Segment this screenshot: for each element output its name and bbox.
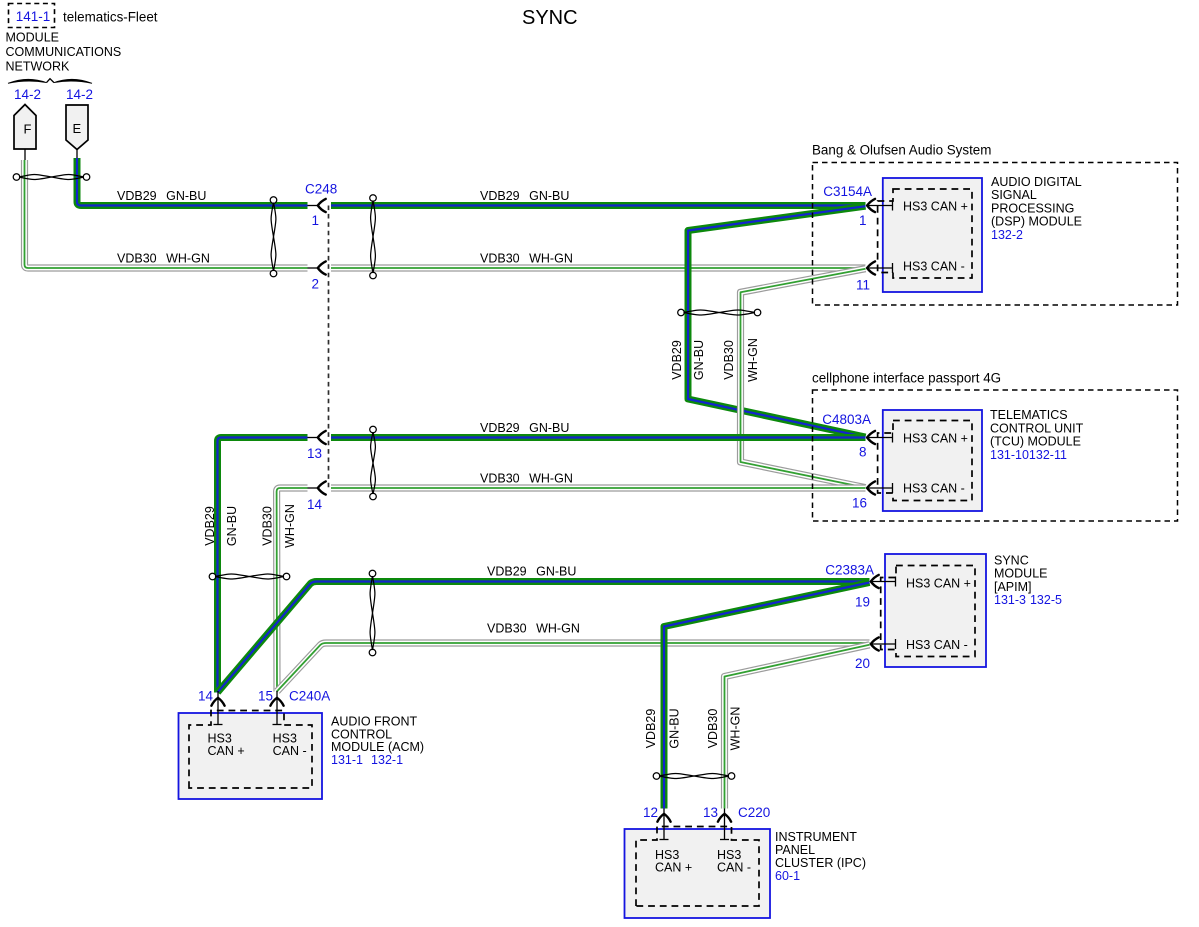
twisted pair symbol on runs 1-2 right of C248 <box>370 195 377 279</box>
svg-text:CAN +: CAN + <box>208 744 245 758</box>
svg-text:VDB29: VDB29 <box>203 506 217 546</box>
module box DSP U1 <box>883 178 982 292</box>
svg-text:F: F <box>24 122 32 137</box>
svg-text:8: 8 <box>859 445 867 460</box>
connector E <box>66 105 88 160</box>
label AUDIO FRONT CONTROL MODULE (ACM) <box>331 715 424 767</box>
svg-text:VDB29GN-BU: VDB29GN-BU <box>117 189 206 203</box>
pin stub ACM pin 14 <box>211 691 224 725</box>
label AUDIO DIGITAL SIGNAL PROCESSING (DSP) MODULE <box>991 175 1082 242</box>
svg-text:COMMUNICATIONS: COMMUNICATIONS <box>6 45 122 59</box>
svg-text:SYNC: SYNC <box>994 554 1029 568</box>
label HS3 CAN - (ACM) <box>273 732 307 759</box>
svg-text:PROCESSING: PROCESSING <box>991 201 1074 215</box>
connector boundary dashed DSP <box>878 189 972 278</box>
twisted pair symbol on verticals to ACM <box>209 573 290 580</box>
svg-text:WH-GN: WH-GN <box>729 707 743 751</box>
svg-text:C3154A: C3154A <box>823 184 872 199</box>
svg-text:VDB29GN-BU: VDB29GN-BU <box>480 189 569 203</box>
junction arrow pin 13 at C248 <box>308 431 326 444</box>
twisted pair symbol on runs 13-14 right of C248 <box>370 426 377 500</box>
pin stub DSP pin 1 <box>867 199 893 212</box>
svg-text:12: 12 <box>643 805 658 820</box>
svg-text:GN-BU: GN-BU <box>225 506 239 546</box>
wire VDB30 WH-GN: C248 junction 2 to DSP pin 11 <box>331 264 866 271</box>
svg-text:11: 11 <box>856 278 870 293</box>
twisted pair symbol on runs to SYNC <box>369 570 376 656</box>
svg-text:VDB29: VDB29 <box>644 709 658 749</box>
svg-text:GN-BU: GN-BU <box>692 340 706 380</box>
svg-text:14-2: 14-2 <box>14 87 41 102</box>
svg-text:CAN -: CAN - <box>273 744 307 758</box>
svg-text:VDB29GN-BU: VDB29GN-BU <box>487 565 576 579</box>
wire VDB29 GN-BU: SYNC pin 19 to IPC pin 12 <box>664 583 870 809</box>
module box SYNC APIM U3 <box>885 554 986 667</box>
system box cellphone interface passport 4G <box>813 390 1178 521</box>
connector boundary dashed ACM <box>189 711 312 789</box>
label HS3 CAN + (IPC) <box>655 848 692 875</box>
svg-text:HS3 CAN +: HS3 CAN + <box>903 432 968 446</box>
svg-text:131-1132-1: 131-1132-1 <box>331 753 403 767</box>
wire VDB30 WH-GN: ACM pin 15 up and right to C248 junction 14 <box>277 488 308 692</box>
grid reference box 141-1 <box>9 4 55 28</box>
svg-text:2: 2 <box>311 277 319 292</box>
label TELEMATICS CONTROL UNIT (TCU) MODULE <box>990 408 1084 462</box>
svg-text:HS3 CAN +: HS3 CAN + <box>906 577 971 591</box>
svg-text:14: 14 <box>307 497 323 512</box>
pin stub TCU pin 8 <box>867 431 893 444</box>
svg-text:1: 1 <box>311 213 319 228</box>
module box TCU U2 <box>883 410 982 511</box>
svg-text:[APIM]: [APIM] <box>994 580 1032 594</box>
svg-text:telematics-Fleet: telematics-Fleet <box>63 9 158 24</box>
svg-text:1: 1 <box>859 213 867 228</box>
svg-text:VDB30: VDB30 <box>722 340 736 380</box>
pin stub TCU pin 16 <box>867 481 893 494</box>
svg-text:131-10132-11: 131-10132-11 <box>990 448 1067 462</box>
connector boundary dashed IPC <box>636 827 759 907</box>
svg-text:13: 13 <box>703 805 718 820</box>
wire VDB30 WH-GN: DSP pin 11 to TCU pin 16 zigzag <box>741 269 866 488</box>
svg-text:WH-GN: WH-GN <box>283 504 297 548</box>
svg-text:HS3 CAN +: HS3 CAN + <box>903 200 968 214</box>
svg-text:20: 20 <box>855 656 870 671</box>
svg-text:(TCU) MODULE: (TCU) MODULE <box>990 435 1081 449</box>
wire VDB30 WH-GN: SYNC pin 20 to IPC pin 13 <box>725 645 870 809</box>
label HS3 CAN - (IPC) <box>717 848 751 875</box>
module box ACM U4 <box>179 713 323 799</box>
svg-text:HS3 CAN -: HS3 CAN - <box>906 638 968 652</box>
svg-text:VDB30WH-GN: VDB30WH-GN <box>117 252 210 266</box>
label MODULE COMMUNICATIONS NETWORK <box>6 31 122 74</box>
pin stub SYNC pin 20 <box>871 637 897 650</box>
pin stub IPC pin 12 <box>657 809 670 841</box>
pin stub IPC pin 13 <box>718 809 731 841</box>
svg-text:14: 14 <box>198 689 214 704</box>
twisted pair symbol on F/E verticals <box>13 174 90 181</box>
wire VDB29 GN-BU: DSP pin 1 to TCU pin 8 zigzag <box>688 206 866 437</box>
svg-text:PANEL: PANEL <box>775 843 815 857</box>
svg-text:141-1: 141-1 <box>16 9 51 24</box>
svg-text:131-3132-5: 131-3132-5 <box>994 593 1062 607</box>
wire VDB29 GN-BU: ACM pin 14 diagonal up to SYNC pin 19 <box>218 582 870 693</box>
svg-text:VDB30: VDB30 <box>261 506 275 546</box>
wire VDB29 GN-BU: connector E down and right to C248 junction 1 <box>77 158 308 206</box>
svg-text:HS3 CAN -: HS3 CAN - <box>903 482 965 496</box>
wire VDB30 WH-GN: connector F down and right to C248 junction 2 <box>25 160 308 268</box>
svg-text:VDB30: VDB30 <box>706 709 720 749</box>
svg-text:VDB30WH-GN: VDB30WH-GN <box>480 252 573 266</box>
svg-text:Bang & Olufsen Audio System: Bang & Olufsen Audio System <box>812 143 991 158</box>
svg-text:MODULE: MODULE <box>6 31 59 45</box>
svg-text:CONTROL UNIT: CONTROL UNIT <box>990 421 1084 435</box>
svg-text:NETWORK: NETWORK <box>6 60 71 74</box>
twisted pair symbol on runs 1-2 left of C248 <box>270 197 277 277</box>
svg-text:132-2: 132-2 <box>991 228 1023 242</box>
wire VDB29 GN-BU: ACM pin 14 up and right to C248 junction 13 <box>218 438 308 693</box>
wire VDB29 GN-BU: C248 junction 13 to TCU pin 8 <box>331 434 866 441</box>
svg-text:VDB30WH-GN: VDB30WH-GN <box>480 472 573 486</box>
connector C248 dashed line <box>328 206 330 489</box>
svg-text:cellphone interface passport 4: cellphone interface passport 4G <box>812 371 1001 386</box>
svg-text:16: 16 <box>852 496 867 511</box>
svg-text:VDB29GN-BU: VDB29GN-BU <box>480 421 569 435</box>
connector F <box>14 105 36 162</box>
svg-text:C2383A: C2383A <box>825 563 874 578</box>
svg-text:19: 19 <box>855 595 870 610</box>
svg-text:CLUSTER (IPC): CLUSTER (IPC) <box>775 856 866 870</box>
svg-text:15: 15 <box>258 689 273 704</box>
svg-text:INSTRUMENT: INSTRUMENT <box>775 830 857 844</box>
brace over connectors <box>8 79 92 84</box>
svg-text:AUDIO DIGITAL: AUDIO DIGITAL <box>991 175 1082 189</box>
pin stub SYNC pin 19 <box>871 575 897 588</box>
twisted pair symbol on verticals to IPC <box>653 773 735 780</box>
svg-text:TELEMATICS: TELEMATICS <box>990 408 1068 422</box>
svg-text:C4803A: C4803A <box>822 412 871 427</box>
label SYNC MODULE [APIM] <box>994 554 1062 608</box>
svg-text:WH-GN: WH-GN <box>746 338 760 382</box>
wire VDB29 GN-BU: C248 junction 1 to DSP pin 1 <box>331 202 866 209</box>
connector boundary dashed TCU <box>878 421 972 501</box>
label HS3 CAN + (ACM) <box>208 732 245 759</box>
svg-text:VDB29: VDB29 <box>670 340 684 380</box>
svg-text:SYNC: SYNC <box>522 7 578 29</box>
pin stub ACM pin 15 <box>270 691 283 725</box>
system box Bang & Olufsen Audio System <box>813 163 1178 306</box>
junction arrow pin 14 at C248 <box>308 481 326 494</box>
svg-text:SIGNAL: SIGNAL <box>991 188 1037 202</box>
junction arrow pin 2 at C248 <box>308 261 326 274</box>
svg-text:CAN +: CAN + <box>655 861 692 875</box>
twisted pair symbol on verticals DSP-TCU <box>678 309 761 316</box>
svg-text:VDB30WH-GN: VDB30WH-GN <box>487 622 580 636</box>
pin stub DSP pin 11 <box>867 261 893 274</box>
junction arrow pin 1 at C248 <box>308 199 326 212</box>
module box IPC U5 <box>625 829 771 918</box>
svg-text:13: 13 <box>307 446 322 461</box>
svg-text:MODULE: MODULE <box>994 567 1047 581</box>
connector boundary dashed SYNC <box>881 566 975 657</box>
svg-text:HS3 CAN -: HS3 CAN - <box>903 260 965 274</box>
wire VDB30 WH-GN: ACM pin 15 diagonal up to SYNC pin 20 <box>277 643 869 691</box>
svg-text:60-1: 60-1 <box>775 869 800 883</box>
label INSTRUMENT PANEL CLUSTER (IPC) <box>775 830 866 883</box>
svg-text:C248: C248 <box>305 182 337 197</box>
svg-text:(DSP) MODULE: (DSP) MODULE <box>991 215 1082 229</box>
svg-text:C220: C220 <box>738 805 770 820</box>
svg-text:C240A: C240A <box>289 689 330 704</box>
svg-text:14-2: 14-2 <box>66 87 93 102</box>
svg-text:E: E <box>73 121 82 136</box>
wire VDB30 WH-GN: C248 junction 14 to TCU pin 16 <box>331 484 866 491</box>
svg-text:CAN -: CAN - <box>717 861 751 875</box>
svg-text:GN-BU: GN-BU <box>668 708 682 748</box>
